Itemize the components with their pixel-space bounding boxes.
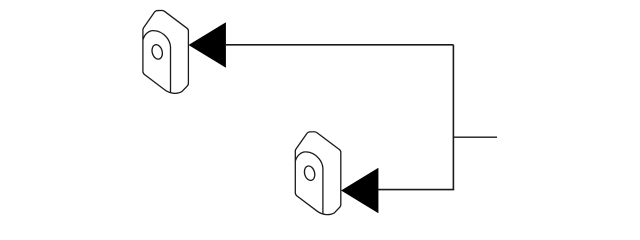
vertical leader line bbox=[452, 45, 454, 190]
leader arrow 1 bbox=[189, 22, 226, 68]
branch stub line bbox=[453, 136, 497, 138]
fastener part 2 (lower-center grommet) bbox=[295, 132, 341, 215]
fastener part 1 (upper-left grommet) bbox=[143, 10, 189, 93]
leader arrow 2 bbox=[341, 168, 378, 214]
leader line 2 (horizontal, bottom) bbox=[378, 189, 454, 191]
leader line 1 (horizontal, top) bbox=[225, 44, 453, 46]
